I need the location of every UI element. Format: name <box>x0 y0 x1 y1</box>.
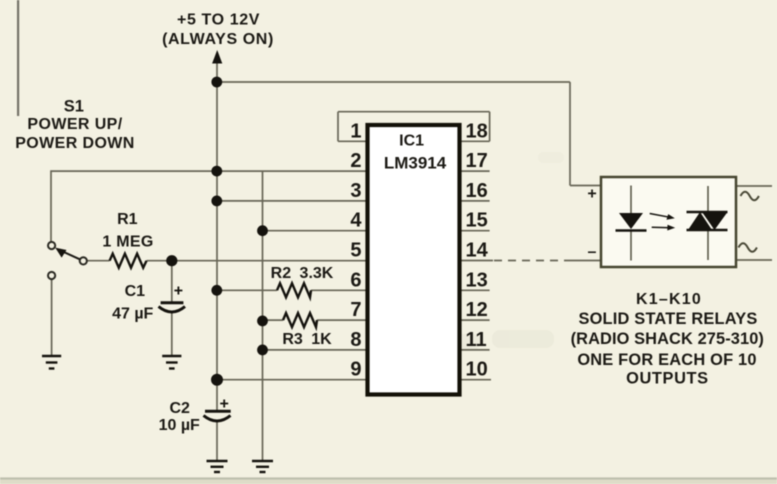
ground: under bus <box>252 461 273 472</box>
svg-text:14: 14 <box>466 240 489 262</box>
scan edge artifact top-left <box>17 0 19 116</box>
relay K1 box <box>601 177 736 267</box>
svg-text:K1–K10: K1–K10 <box>636 291 702 308</box>
svg-text:(RADIO SHACK 275-310): (RADIO SHACK 275-310) <box>571 330 764 348</box>
optocoupler arrow 2 <box>652 225 676 231</box>
optocoupler arrow 1 <box>650 214 675 220</box>
triac down triangle <box>702 212 728 230</box>
node: pin2 rail junction <box>211 166 222 177</box>
AC squiggle bottom <box>739 243 757 252</box>
resistor R2 3.3K <box>277 283 311 297</box>
node: pin7 bus junction <box>257 316 268 327</box>
wire: loop vertical right to pin18 <box>489 112 491 142</box>
C2 curved plate <box>204 416 231 422</box>
wire: pin4 from bus <box>263 230 368 232</box>
wire: C2 bottom lead to ground <box>216 420 218 461</box>
svg-text:+5 TO 12V: +5 TO 12V <box>177 11 260 28</box>
wire: pin8 from bus <box>263 349 368 351</box>
wire: C1 top lead <box>171 261 173 302</box>
C1 curved plate <box>159 307 186 313</box>
capacitor C1 47uF <box>159 287 186 313</box>
LED cathode bar <box>616 229 647 232</box>
wire: bus vertical x=262.5 <box>262 171 264 460</box>
svg-text:SOLID STATE RELAYS: SOLID STATE RELAYS <box>578 310 757 328</box>
power arrow +V <box>212 50 222 64</box>
wire: pin9 from rail <box>217 379 368 381</box>
wire: pin17 stub <box>460 170 490 172</box>
svg-text:10: 10 <box>466 359 488 381</box>
C2 plus sign <box>220 400 228 408</box>
wire: pin18 stub right <box>460 140 490 142</box>
wire: top power rail horizontal to relay column <box>217 81 570 83</box>
AC squiggle top <box>741 192 759 201</box>
svg-text:10 µF: 10 µF <box>159 417 200 434</box>
node: pin9 / C2 junction <box>211 374 223 386</box>
capacitor C2 10uF <box>204 400 231 422</box>
svg-text:OUTPUTS: OUTPUTS <box>626 370 709 388</box>
svg-text:S1: S1 <box>64 97 84 115</box>
svg-text:15: 15 <box>466 210 488 232</box>
switch S1 <box>48 242 87 279</box>
wire: R1 to pin5 <box>147 260 368 262</box>
wire: relay LED cathode vertical <box>630 231 632 261</box>
wire: pin1 loop vertical left <box>337 112 339 142</box>
S1 pole contact <box>80 257 87 264</box>
node: pin4 bus junction <box>257 225 268 236</box>
wire: relay feed vertical x=570 <box>569 82 571 186</box>
svg-text:C2: C2 <box>169 400 190 417</box>
wire: pin1-pin18 loop top <box>338 111 490 113</box>
wire: relay triac top vertical <box>707 186 709 212</box>
svg-text:IC1: IC1 <box>399 133 424 150</box>
wire: pin13 stub <box>460 289 490 291</box>
svg-text:47 µF: 47 µF <box>112 305 153 322</box>
svg-text:–: – <box>588 244 597 261</box>
wire: relay bottom-right AC lead <box>708 259 772 261</box>
ground: under switch S1 <box>42 356 61 369</box>
op-amp/IC U1: LM3914 body <box>368 125 460 395</box>
wire: pin12 stub <box>460 319 490 321</box>
svg-text:16: 16 <box>466 180 488 202</box>
node: pin6 rail junction <box>211 285 222 296</box>
svg-text:+: + <box>587 186 596 203</box>
svg-text:R2 3.3K: R2 3.3K <box>271 265 334 282</box>
faint scan bleed-through ghosts <box>398 152 564 350</box>
svg-text:LM3914: LM3914 <box>384 153 447 172</box>
svg-text:11: 11 <box>466 329 487 351</box>
svg-text:8: 8 <box>350 329 361 351</box>
C1 plus sign <box>174 287 182 295</box>
wire: pin1 stub <box>338 140 368 142</box>
triac up triangle <box>688 212 712 230</box>
node: R1/C1/pin5 junction <box>166 255 177 266</box>
node: +V junction dot <box>211 77 222 88</box>
wire: switch lower contact to ground <box>51 279 53 356</box>
resistor R1 1 MEG <box>110 254 147 268</box>
LED in relay <box>619 213 643 229</box>
C2 top plate <box>205 410 231 413</box>
svg-text:2: 2 <box>350 150 361 172</box>
svg-text:7: 7 <box>350 299 361 321</box>
scan edge strip bottom <box>0 477 777 479</box>
svg-text:(ALWAYS ON): (ALWAYS ON) <box>162 31 274 48</box>
svg-text:1: 1 <box>350 120 361 142</box>
wire: relay LED anode vertical <box>630 186 632 214</box>
svg-text:C1: C1 <box>125 283 146 300</box>
svg-text:R3 1K: R3 1K <box>282 331 332 348</box>
ground: under C1 <box>162 356 181 369</box>
svg-text:R1: R1 <box>117 211 138 228</box>
wire: relay triac bottom vertical <box>707 230 709 260</box>
wire: relay top-right AC lead <box>708 185 772 187</box>
svg-text:17: 17 <box>466 150 488 172</box>
wire: C1 bottom lead to ground <box>171 311 173 356</box>
wire: pin16 stub <box>460 200 490 202</box>
svg-text:6: 6 <box>350 269 361 291</box>
wire: R2 to pin6 <box>311 289 368 291</box>
svg-text:5: 5 <box>350 240 361 262</box>
node: pin8 bus junction <box>257 345 268 356</box>
wire: pin11 stub <box>460 349 490 351</box>
svg-text:13: 13 <box>466 269 488 291</box>
wire: pin15 stub <box>460 230 490 232</box>
wire: R3 to pin7 <box>317 319 368 321</box>
wire: +V vertical rail x=217 <box>216 57 218 411</box>
svg-text:9: 9 <box>350 359 361 381</box>
triac bottom bar <box>687 229 728 232</box>
resistor R3 1K <box>283 313 317 327</box>
wire: pin2 line to switch <box>51 171 368 242</box>
ground: under C2 <box>207 461 228 472</box>
C1 top plate <box>161 301 184 304</box>
wire: pin14 stub solid <box>460 260 494 262</box>
wire: switch arm to R1 <box>87 260 110 262</box>
wire: pin3 from +V rail <box>217 200 368 202</box>
S1 arm arrowhead <box>55 248 66 258</box>
wire: pin10 stub <box>460 379 492 381</box>
svg-text:4: 4 <box>350 210 362 232</box>
triac top bar <box>687 211 728 214</box>
svg-text:1 MEG: 1 MEG <box>102 234 153 251</box>
S1 top fixed contact <box>48 242 55 249</box>
svg-text:POWER UP/: POWER UP/ <box>27 116 122 133</box>
svg-text:12: 12 <box>466 299 488 321</box>
node: pin3 rail junction <box>211 196 222 207</box>
S1 arm <box>62 251 80 259</box>
svg-text:3: 3 <box>350 180 361 202</box>
wire: pin7 lead from bus to R3 <box>263 319 284 321</box>
wire: relay feed horizontal into relay + <box>570 185 631 187</box>
S1 lower fixed contact <box>48 272 55 279</box>
svg-text:ONE FOR EACH OF 10: ONE FOR EACH OF 10 <box>577 351 756 369</box>
svg-text:POWER DOWN: POWER DOWN <box>15 135 135 152</box>
svg-text:18: 18 <box>466 120 488 142</box>
wire: pin6 lead from rail to R2 <box>217 289 277 291</box>
wire: pin14 dashed link to relay minus <box>494 260 566 262</box>
wire: relay minus lead <box>566 260 631 262</box>
